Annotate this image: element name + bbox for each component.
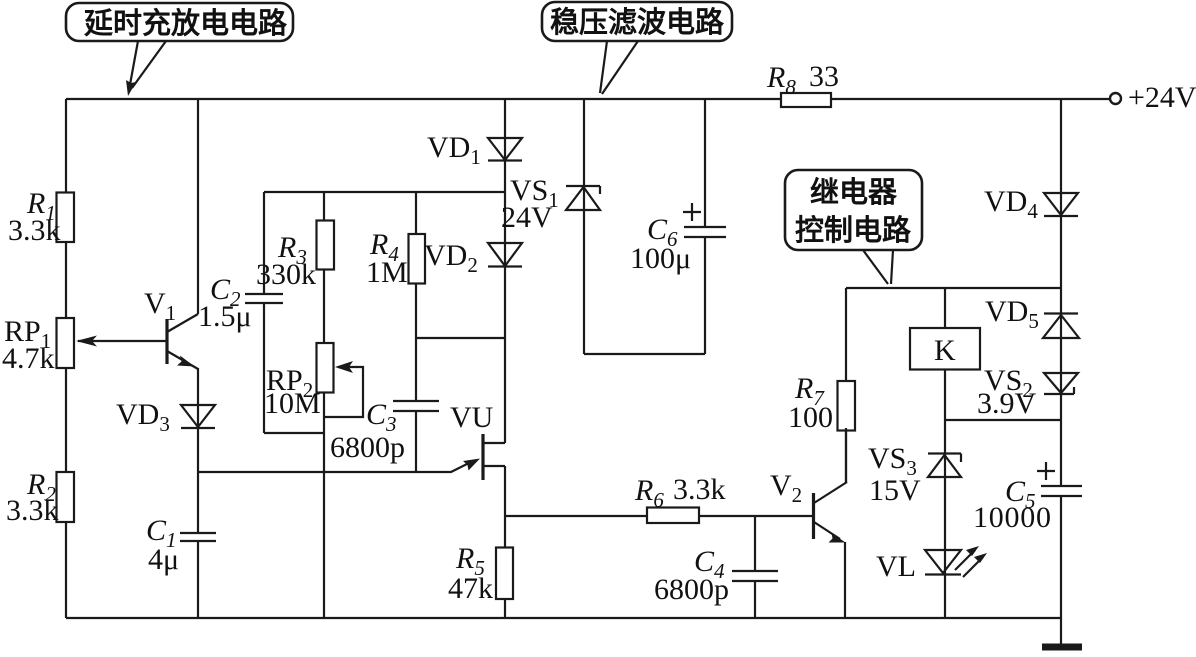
svg-text:100: 100: [788, 401, 833, 434]
svg-text:33: 33: [809, 60, 839, 93]
svg-text:4.7k: 4.7k: [2, 342, 55, 375]
svg-text:100μ: 100μ: [630, 242, 691, 275]
svg-text:继电器: 继电器: [810, 175, 898, 209]
wire VS1 column: [583, 99, 585, 354]
callout bubble relay control circuit: [785, 170, 922, 250]
wire V2 emitter column: [844, 542, 846, 618]
LED VL: [925, 546, 987, 577]
wire K column: [944, 288, 946, 618]
arrowhead RP2 wiper: [335, 361, 353, 373]
wire V1 emitter / VD3 / C1 column: [197, 368, 199, 618]
svg-text:24V: 24V: [501, 201, 553, 234]
wire RP2 wiper loop: [325, 367, 363, 417]
svg-text:3.3k: 3.3k: [6, 494, 59, 527]
svg-text:VL: VL: [876, 550, 916, 583]
diode VD1: [488, 138, 522, 161]
svg-text:1.5μ: 1.5μ: [198, 300, 252, 333]
svg-text:+24V: +24V: [1128, 81, 1196, 114]
wire C2 bottom link: [264, 432, 325, 434]
svg-text:V1: V1: [144, 287, 176, 325]
callout bubble delay charge/discharge circuit: [66, 3, 293, 41]
resistor R7: [838, 381, 856, 431]
wire R4 bottom to VD2 cathode: [416, 337, 505, 339]
svg-text:VD1: VD1: [427, 131, 481, 169]
resistor R1: [57, 193, 75, 243]
diode VD2: [488, 243, 522, 267]
wire left column: [65, 99, 67, 618]
resistor R6: [647, 508, 699, 524]
plus C5: [1037, 462, 1055, 480]
terminal +24V: [1110, 93, 1121, 104]
wire VU B2 lead: [483, 442, 505, 444]
capacitor C3: [393, 401, 439, 411]
svg-text:VU: VU: [450, 401, 494, 434]
svg-text:3.3k: 3.3k: [8, 214, 61, 247]
capacitor C4: [732, 571, 778, 581]
relay coil K: [910, 328, 980, 370]
potentiometer RP1: [57, 318, 75, 368]
transistor V1: [167, 314, 198, 369]
capacitor C6: [684, 227, 726, 237]
UJT VU: [481, 434, 484, 480]
wire middle column VD1/VD2: [504, 99, 506, 443]
wire C6 column: [704, 99, 706, 354]
wire R4/C3 column: [415, 192, 417, 472]
callout bubble regulator filter circuit: [542, 2, 732, 41]
svg-text:VD3: VD3: [116, 398, 170, 436]
wire R3/R4 top sub-rail: [264, 191, 505, 193]
svg-text:V2: V2: [770, 469, 802, 507]
svg-text:3.9V: 3.9V: [977, 387, 1037, 420]
wire V1 collector column: [197, 99, 199, 314]
svg-text:VD4: VD4: [984, 185, 1038, 223]
callout pointer 2: [600, 41, 638, 94]
svg-text:K: K: [934, 334, 956, 367]
svg-text:控制电路: 控制电路: [795, 214, 912, 247]
zener VS2: [1044, 373, 1078, 394]
capacitor C2: [245, 294, 283, 303]
callout pointer 1: [129, 41, 166, 90]
svg-text:10000: 10000: [973, 501, 1051, 534]
wire VS1 to C6 bottom link: [584, 353, 705, 355]
svg-text:稳压滤波电路: 稳压滤波电路: [550, 5, 725, 39]
svg-text:330k: 330k: [256, 258, 316, 291]
resistor R8: [781, 93, 831, 107]
arrowhead VU emitter: [463, 459, 480, 471]
wire relay rail: [846, 287, 1061, 289]
svg-text:6800p: 6800p: [330, 431, 405, 464]
potentiometer RP2: [317, 343, 334, 393]
wire VU emitter long rail: [198, 462, 472, 473]
plus C6: [683, 203, 701, 221]
svg-text:47k: 47k: [448, 572, 493, 605]
wire K to VS2 link: [945, 419, 1061, 421]
svg-text:3.3k: 3.3k: [673, 473, 726, 506]
zener VS3: [928, 454, 961, 478]
transistor V2: [814, 428, 848, 543]
callout pointer 3: [863, 250, 893, 284]
wire R6 rail to V2 base: [505, 515, 812, 517]
wire RP1 wiper to V1 base: [78, 340, 166, 342]
diode VD4: [1044, 193, 1078, 216]
zener VS1: [566, 186, 600, 210]
svg-text:6800p: 6800p: [654, 573, 729, 606]
wire top rail: [66, 98, 1110, 100]
svg-text:VD2: VD2: [424, 239, 478, 277]
wire right column: [1060, 99, 1062, 618]
capacitor C5: [1041, 486, 1082, 496]
resistor R3: [317, 221, 335, 270]
arrowhead RP1 wiper: [76, 336, 97, 347]
wire VU B1 lead: [483, 466, 505, 516]
resistor R5: [496, 548, 513, 600]
svg-text:R8: R8: [766, 61, 796, 99]
resistor R2: [57, 472, 75, 522]
wire R5 column: [504, 516, 506, 618]
diode VD5: [1043, 314, 1079, 339]
svg-text:1M: 1M: [366, 256, 408, 289]
wire C2 column: [263, 192, 265, 433]
wire R3/RP2 column: [323, 192, 325, 618]
svg-text:4μ: 4μ: [148, 543, 179, 576]
wire C4 column: [754, 516, 756, 618]
svg-text:VD5: VD5: [985, 295, 1039, 333]
diode VD3: [181, 405, 215, 428]
wire R7 column: [845, 288, 847, 483]
ground: [1060, 618, 1062, 644]
resistor R4: [409, 234, 426, 284]
svg-text:10M: 10M: [264, 387, 321, 420]
svg-text:15V: 15V: [869, 474, 921, 507]
wire bottom rail: [66, 617, 1061, 619]
capacitor C1: [180, 533, 216, 541]
svg-text:R6: R6: [634, 474, 664, 512]
svg-text:延时充放电电路: 延时充放电电路: [83, 7, 288, 40]
